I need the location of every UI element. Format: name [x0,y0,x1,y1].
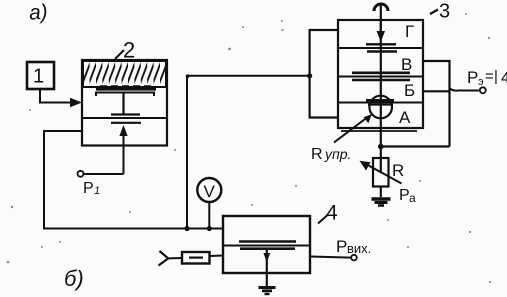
upper electrode plate [96,93,154,97]
junction node on rail (riser) [184,226,189,231]
ground under block 4 [259,288,276,295]
vent-to-atmosphere hook on top [374,4,388,11]
center stem of block 3 [380,4,382,34]
leader arrow for R упр [334,114,372,143]
voltmeter V [197,178,221,229]
restrictor (throttle) [182,252,210,264]
junction node above resistor [378,144,384,150]
right channel of block 3 [423,61,450,147]
label Р1 [83,180,100,197]
divider Г/В [338,47,423,49]
label Ра [399,187,416,205]
svg-text:Б: Б [404,81,415,100]
movable plate [111,113,140,115]
svg-text:В: В [401,55,412,74]
block U2 body (capacitive transducer) [82,60,167,146]
divider membrane of block 4 [223,245,310,247]
arrow down inside section Г [377,22,385,42]
svg-text:=: = [485,68,494,85]
lower plate of block 4 [240,247,295,250]
svg-text:V: V [204,182,216,201]
label 4 with leader tick [318,202,338,225]
svg-text:1: 1 [94,185,100,197]
svg-text:3: 3 [439,1,450,23]
svg-text:упр.: упр. [324,146,351,162]
divider Б/А [338,102,423,104]
svg-text:Р: Р [336,237,347,256]
svg-text:R: R [392,161,404,180]
svg-text:4: 4 [501,70,507,87]
label Рвих. [336,237,371,256]
plate pair at Г/В membrane [366,36,397,76]
upper plate of block 4 [239,240,296,243]
svg-text:вих.: вих. [347,241,371,256]
arrow up from P1 into block 2 [119,125,127,174]
right channel divider [423,90,450,92]
plate pair at В/Б membrane [352,73,410,96]
terminal Рвих circle [351,255,357,261]
svg-text:2: 2 [123,38,135,63]
terminal Рэ circle [480,87,486,93]
left channel of block 3 [310,30,338,118]
svg-text:4: 4 [326,202,338,225]
svg-text:|: | [494,68,498,85]
svg-text:Г: Г [405,22,414,41]
svg-text:1: 1 [33,66,44,88]
wire restrictor to block 4 [210,255,224,258]
resistor R (variable) [360,158,402,187]
label 3 with leader dash [430,1,450,23]
membrane line under hatch [96,86,156,89]
riser wire up and over to block 3 left channel [187,76,310,229]
label Рэ =|4 [467,68,507,88]
feedback wire from right channel to node [381,145,450,147]
label а) [28,0,48,24]
center stem of plate [122,93,124,115]
center stem of block 4 down to ground [263,249,270,287]
label R упр. [311,146,351,163]
label 2 with leader tick [115,38,135,63]
wire to Рэ terminal [450,89,480,91]
svg-text:А: А [399,108,411,127]
svg-text:б): б) [64,266,84,291]
nozzle ball at Б/А [366,96,394,128]
divider membrane of block 2 [82,117,167,119]
bottom rail wire to block 4 [43,228,223,230]
terminal P1 wire and circle [78,171,124,177]
block U4 body (output transducer) [223,216,310,273]
svg-text:R: R [311,146,323,163]
block U1 "1" (sensor box) [27,62,54,89]
divider В/Б [338,76,423,78]
junction node on rail (voltmeter lead) [207,226,212,231]
supply chevron input [159,251,169,266]
wire chevron to restrictor [168,257,182,259]
wire block2 left edge down to bottom rail [44,131,82,229]
svg-text:а: а [409,191,416,205]
wire block3 bottom to node [380,128,382,158]
block U3 body (relay amplifier) [338,20,423,128]
double-stroked bottom edge of block 3 [341,130,417,132]
output wire Рвих [310,257,351,258]
hatched cover of block 2 [83,61,166,87]
svg-text:Р: Р [467,68,478,87]
label б) [64,266,84,291]
ground under resistor R [372,187,391,206]
junction node at left channel [307,73,312,78]
lower plate [111,122,141,124]
wire block1 to block2 input with arrowhead [40,89,82,107]
corner blob of riser wire [186,74,190,78]
svg-text:э: э [478,76,484,88]
svg-text:Р: Р [83,180,94,197]
svg-text:а): а) [28,0,48,24]
